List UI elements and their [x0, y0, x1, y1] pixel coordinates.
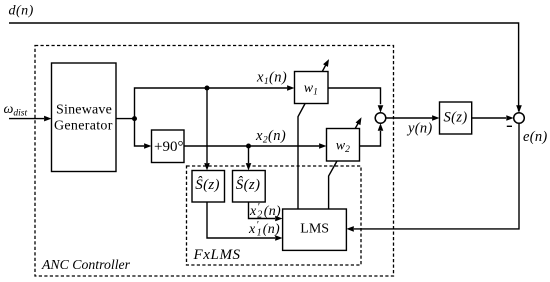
svg-text:y(n): y(n): [406, 120, 433, 136]
svg-text:x: x: [249, 204, 257, 219]
svg-text:x2(n): x2(n): [255, 128, 286, 146]
svg-text:1: 1: [257, 227, 262, 238]
svg-text:x: x: [248, 222, 256, 237]
svg-text:Ŝ(z): Ŝ(z): [195, 176, 220, 193]
svg-text:LMS: LMS: [300, 222, 329, 237]
svg-text:Sinewave: Sinewave: [56, 103, 112, 118]
svg-text:d(n): d(n): [9, 4, 34, 19]
svg-text:Ŝ(z): Ŝ(z): [236, 176, 261, 193]
svg-text:ANC Controller: ANC Controller: [41, 257, 131, 272]
svg-text:(n): (n): [264, 204, 281, 219]
svg-text:2: 2: [257, 209, 262, 220]
svg-text:Generator: Generator: [54, 119, 113, 134]
svg-text:(n): (n): [263, 222, 280, 237]
svg-text:FxLMS: FxLMS: [193, 247, 241, 263]
svg-text:+90°: +90°: [154, 139, 183, 155]
svg-text:S(z): S(z): [444, 110, 468, 126]
svg-text:x1(n): x1(n): [256, 70, 287, 88]
svg-text:e(n): e(n): [523, 129, 548, 145]
